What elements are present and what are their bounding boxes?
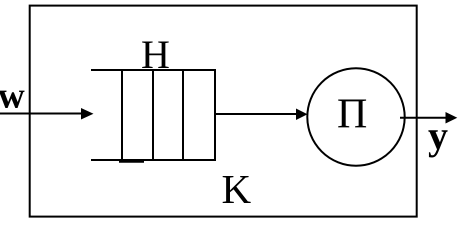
- svg-text:K: K: [222, 166, 252, 212]
- system boundary box K: [30, 6, 417, 217]
- queue H top line: [91, 69, 216, 71]
- svg-text:w: w: [0, 76, 25, 117]
- svg-text:Π: Π: [337, 92, 367, 138]
- svg-text:H: H: [141, 32, 170, 77]
- queue slot divider 1: [121, 69, 123, 161]
- queue slot divider 3: [182, 69, 184, 161]
- queue slot divider 2: [152, 69, 154, 161]
- queue right edge: [214, 69, 216, 161]
- server circle P: [307, 68, 404, 165]
- queue bottom overlap dash: [119, 161, 144, 163]
- queue H bottom line: [91, 159, 216, 161]
- input arrow w: [0, 113, 83, 115]
- arrow queue to server: [215, 113, 297, 115]
- output arrow y: [400, 117, 446, 119]
- svg-text:y: y: [428, 113, 448, 158]
